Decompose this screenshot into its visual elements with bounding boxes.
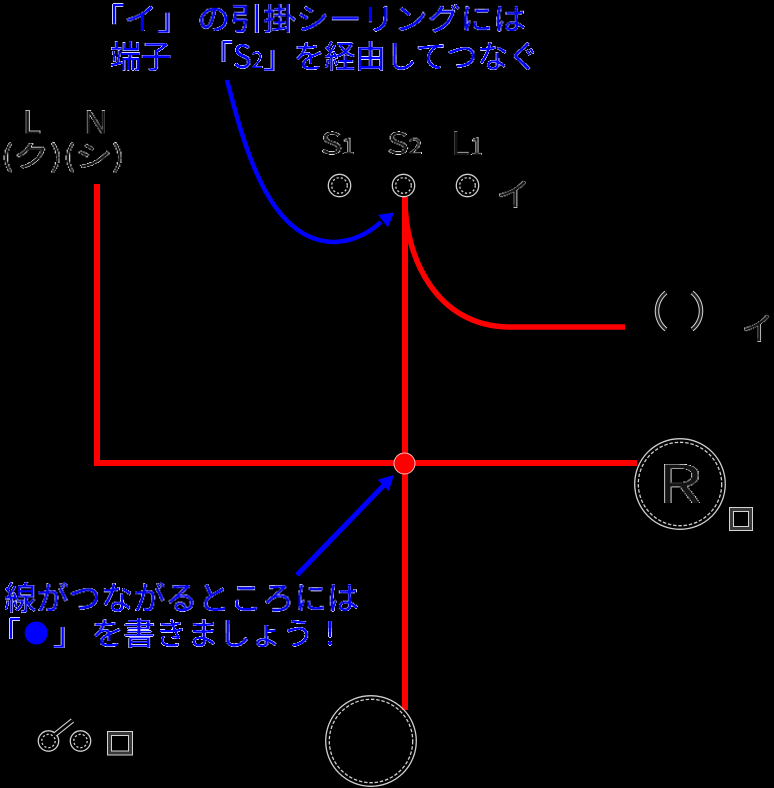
lamp receptacle R circle (635, 439, 726, 530)
annotation text: junction note line 1 (5, 582, 358, 613)
label ロ near switch (110, 734, 131, 754)
node label (ク)(シ) (4, 142, 122, 173)
ceiling light body circle (326, 696, 417, 787)
wire: N terminal down to junction (vertical red) (94, 184, 100, 466)
annotation text: blue note line 1 (112, 3, 525, 33)
annotation text: blue note line 2 (S2 routing) (111, 40, 534, 71)
lamp receptacle letter R (664, 464, 700, 503)
switch terminal circle left (38, 731, 58, 751)
wire: S2 terminal down through junction to ceiling light (vertical red) (402, 197, 408, 710)
label イ near ceiling rosette (744, 315, 769, 342)
wire: curved red from S2 to ceiling rosette イ (405, 200, 625, 327)
junction dot (red) (394, 453, 415, 474)
terminal S2 circle (392, 174, 414, 196)
label イ (switch circuit) near L1 terminal (499, 181, 526, 208)
node label L (26, 110, 41, 134)
ceiling rosette symbol ( ) right paren (692, 293, 701, 330)
switch blade (open contact line) (55, 721, 73, 735)
terminal label L1 (454, 131, 482, 155)
terminal L1 circle (456, 174, 478, 196)
switch terminal circle right (70, 731, 90, 751)
blue curved arrow from note to S2 terminal (227, 80, 381, 242)
wire: horizontal red from N drop across junction to lamp R (94, 460, 637, 466)
node label N (87, 110, 105, 134)
terminal S1 circle (328, 174, 350, 196)
terminal label S2 (388, 131, 422, 155)
terminal label S1 (322, 131, 354, 155)
ceiling rosette symbol ( ) left paren (657, 293, 666, 330)
filled junction dot glyph in note (25, 622, 48, 645)
annotation text: junction note line 2 (9, 617, 332, 648)
blue straight arrow from junction note to junction dot (297, 484, 385, 575)
label ロ near lamp receptacle (732, 510, 751, 529)
